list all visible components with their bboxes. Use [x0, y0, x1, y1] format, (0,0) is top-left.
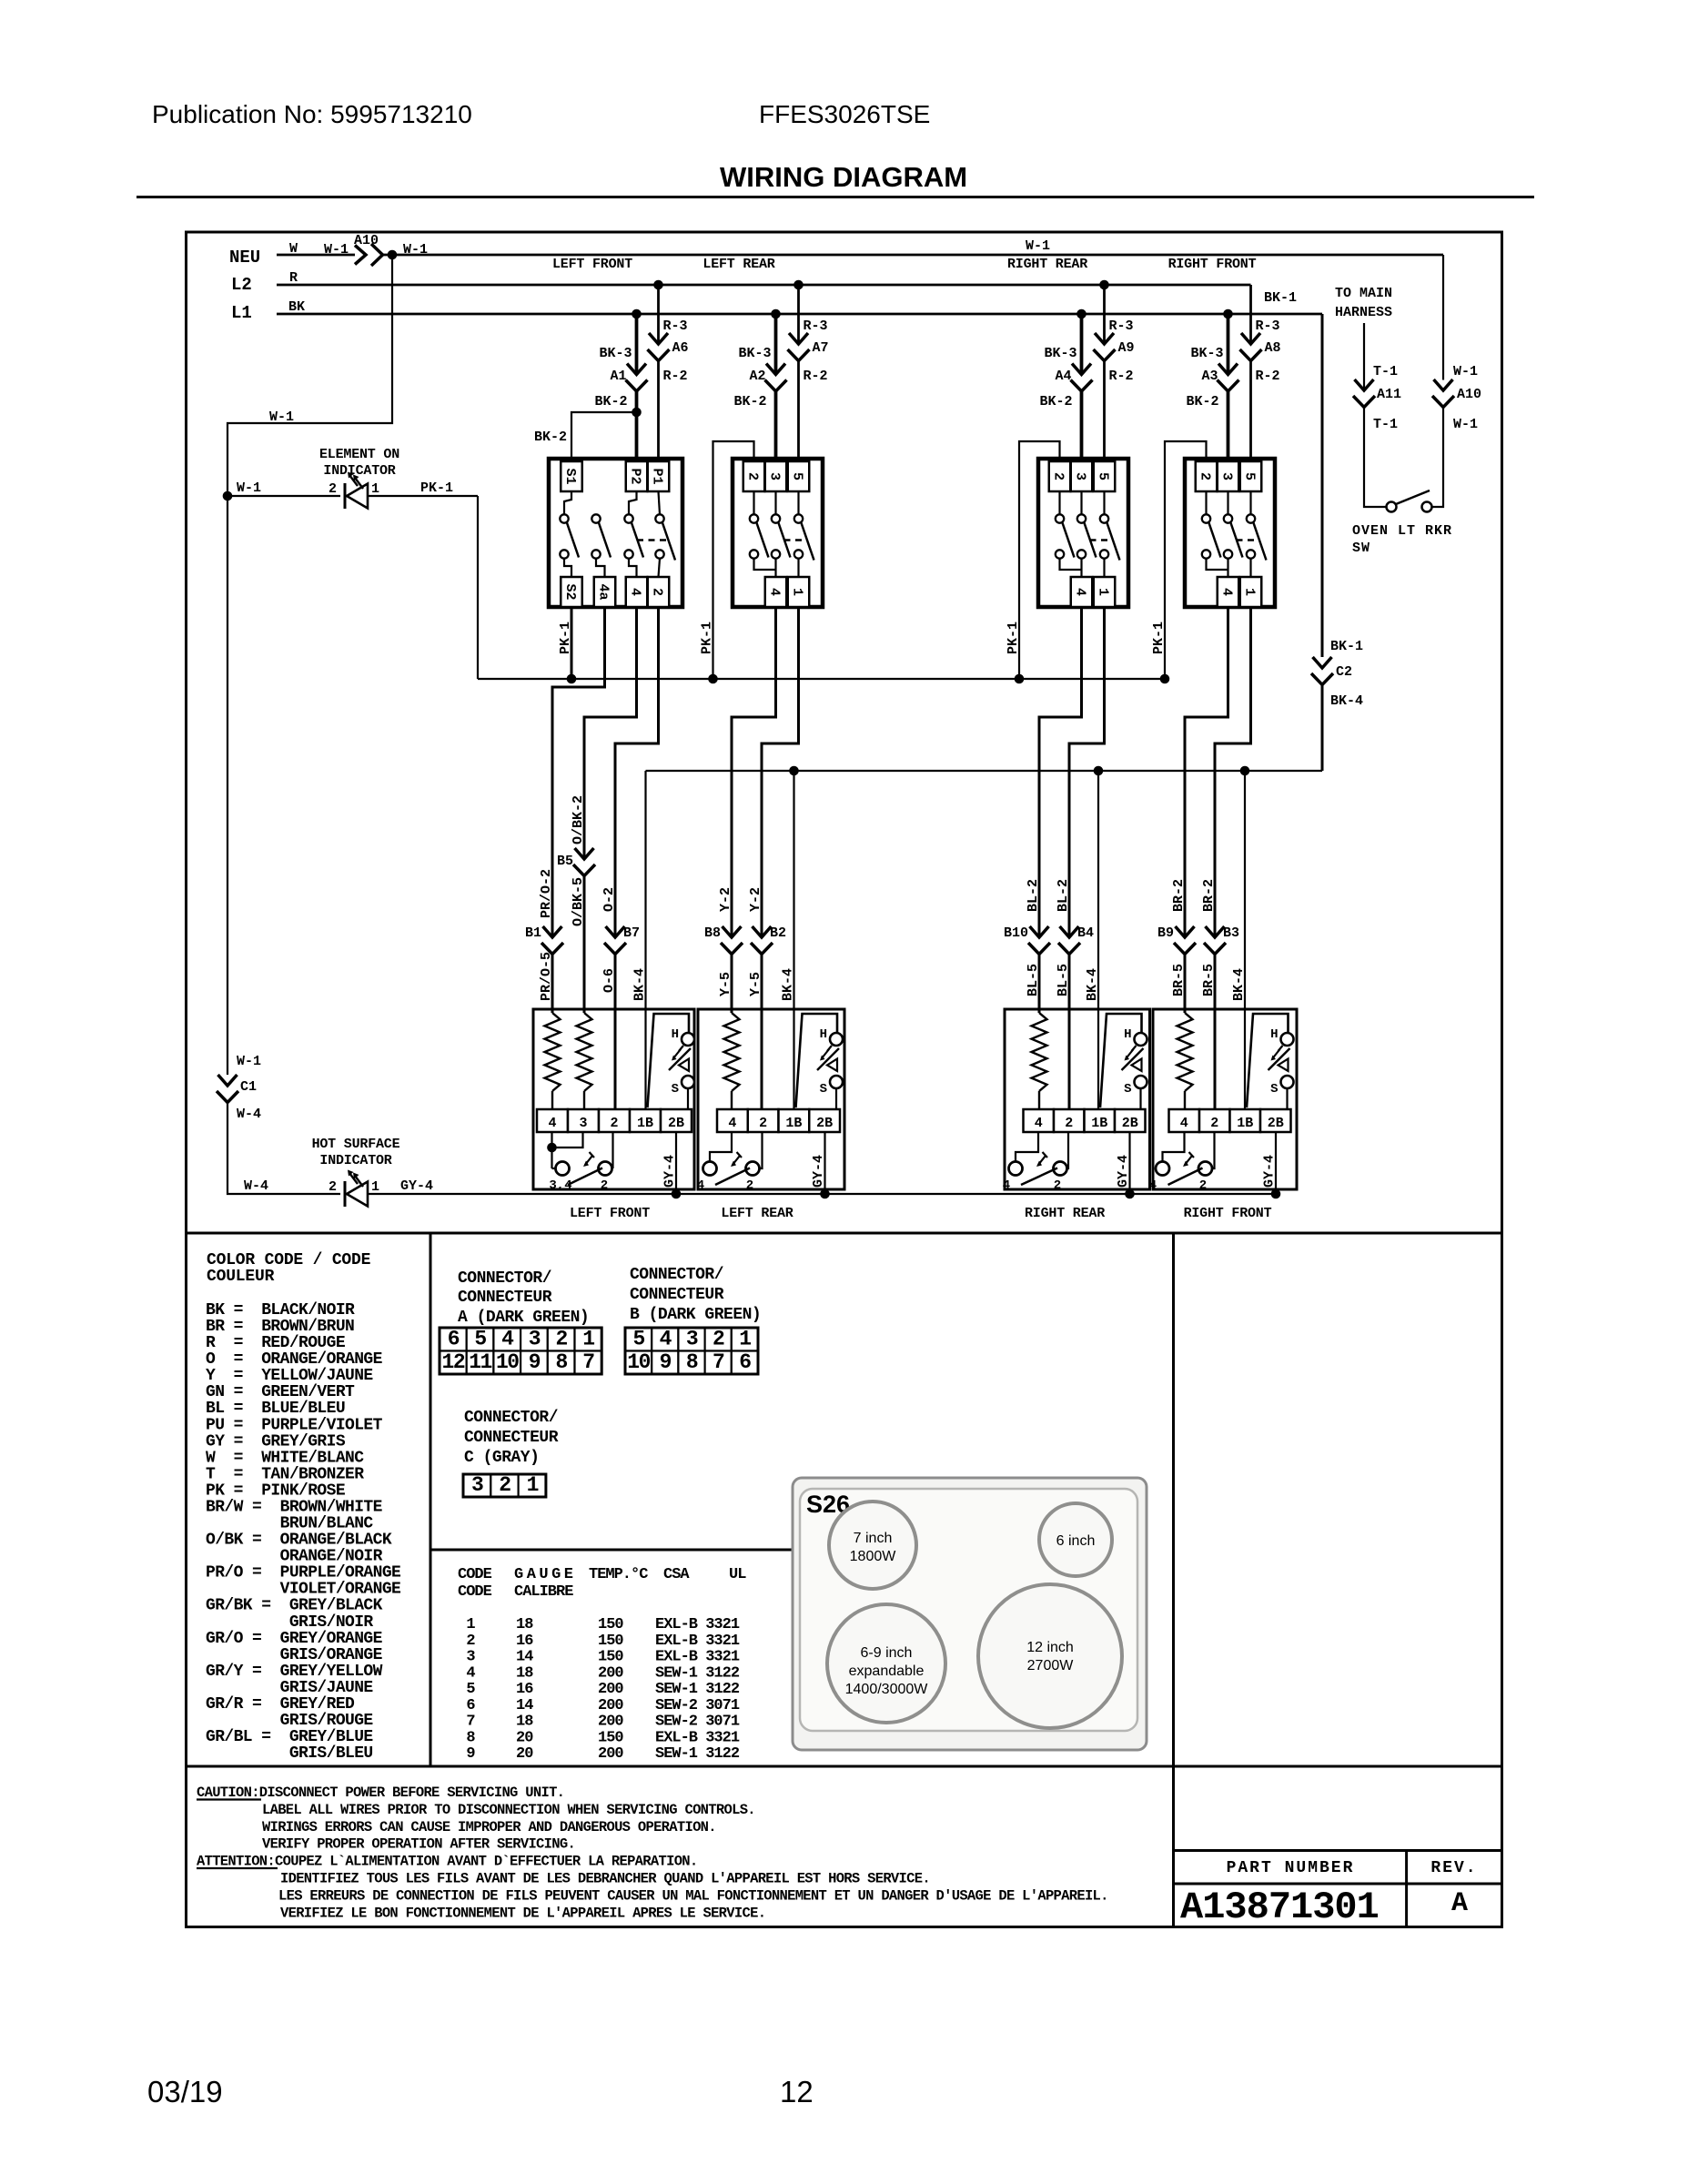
svg-text:WIRINGS ERRORS CAN CAUSE IMPRO: WIRINGS ERRORS CAN CAUSE IMPROPER AND DA… — [262, 1819, 716, 1835]
svg-text:VERIFIEZ LE BON FONCTIONNEMENT: VERIFIEZ LE BON FONCTIONNEMENT DE L'APPA… — [280, 1905, 765, 1921]
svg-text:BK-2: BK-2 — [594, 394, 627, 409]
svg-text:1: 1 — [371, 1179, 379, 1195]
svg-text:3: 3 — [471, 1473, 483, 1497]
svg-text:COULEUR: COULEUR — [207, 1268, 275, 1286]
svg-text:GRIS/JAUNE: GRIS/JAUNE — [206, 1679, 373, 1697]
svg-text:O-2: O-2 — [601, 887, 617, 912]
svg-text:BR-5: BR-5 — [1201, 964, 1217, 996]
svg-text:CONNECTEUR: CONNECTEUR — [458, 1289, 552, 1307]
svg-text:ORANGE/NOIR: ORANGE/NOIR — [206, 1548, 383, 1566]
svg-text:BL = BLUE/BLEU: BL = BLUE/BLEU — [206, 1400, 345, 1418]
svg-text:2: 2 — [650, 588, 665, 596]
svg-text:W-1: W-1 — [1026, 238, 1050, 254]
svg-text:BK = BLACK/NOIR: BK = BLACK/NOIR — [206, 1301, 355, 1319]
svg-text:8: 8 — [466, 1729, 475, 1746]
svg-text:2: 2 — [466, 1633, 475, 1650]
svg-text:INDICATOR: INDICATOR — [323, 463, 395, 479]
svg-text:B10: B10 — [1004, 925, 1028, 941]
svg-text:CODE: CODE — [458, 1583, 492, 1601]
svg-text:R = RED/ROUGE: R = RED/ROUGE — [206, 1334, 346, 1352]
svg-text:16: 16 — [516, 1681, 533, 1698]
svg-text:GRIS/ORANGE: GRIS/ORANGE — [206, 1646, 383, 1664]
svg-text:W-4: W-4 — [237, 1107, 261, 1122]
svg-text:A3: A3 — [1201, 369, 1218, 384]
svg-text:RIGHT REAR: RIGHT REAR — [1007, 257, 1087, 272]
svg-text:5: 5 — [474, 1328, 486, 1351]
svg-text:BK-3: BK-3 — [599, 346, 632, 361]
svg-text:7: 7 — [466, 1714, 475, 1731]
svg-text:HARNESS: HARNESS — [1335, 305, 1392, 320]
svg-text:GRIS/NOIR: GRIS/NOIR — [206, 1613, 373, 1632]
svg-text:BL-2: BL-2 — [1026, 879, 1041, 912]
svg-text:9: 9 — [466, 1745, 475, 1763]
svg-text:1: 1 — [582, 1328, 594, 1351]
svg-text:R-2: R-2 — [804, 369, 828, 384]
svg-text:SEW-2 3071: SEW-2 3071 — [655, 1714, 740, 1731]
svg-text:6-9 inch: 6-9 inch — [861, 1645, 913, 1661]
svg-text:5: 5 — [1096, 472, 1111, 480]
svg-text:2: 2 — [1198, 472, 1213, 480]
svg-text:1: 1 — [1096, 588, 1111, 596]
svg-text:A (DARK GREEN): A (DARK GREEN) — [458, 1309, 589, 1327]
svg-text:BK-4: BK-4 — [1231, 968, 1247, 1001]
svg-text:PR/O = PURPLE/ORANGE: PR/O = PURPLE/ORANGE — [206, 1564, 401, 1582]
svg-text:BK-4: BK-4 — [781, 968, 796, 1001]
svg-text:200: 200 — [598, 1697, 623, 1714]
svg-text:1400/3000W: 1400/3000W — [845, 1682, 929, 1697]
svg-text:5: 5 — [1242, 472, 1258, 480]
svg-text:1: 1 — [739, 1328, 751, 1351]
svg-text:R-3: R-3 — [1256, 318, 1280, 334]
svg-text:8: 8 — [686, 1350, 698, 1374]
svg-text:WIRING DIAGRAM: WIRING DIAGRAM — [720, 161, 967, 193]
svg-text:2: 2 — [745, 472, 761, 480]
svg-text:LEFT FRONT: LEFT FRONT — [570, 1206, 650, 1221]
svg-text:A8: A8 — [1265, 340, 1281, 356]
svg-text:GY-4: GY-4 — [400, 1178, 433, 1194]
svg-text:R-2: R-2 — [1256, 369, 1280, 384]
svg-text:7: 7 — [582, 1350, 594, 1374]
svg-text:CAUTION:DISCONNECT POWER BEFOR: CAUTION:DISCONNECT POWER BEFORE SERVICIN… — [197, 1785, 564, 1801]
svg-text:SEW-1 3122: SEW-1 3122 — [655, 1664, 740, 1682]
svg-text:2B: 2B — [1268, 1116, 1284, 1131]
svg-text:1B: 1B — [637, 1116, 653, 1131]
svg-text:PK-1: PK-1 — [700, 622, 715, 654]
svg-text:BR/W = BROWN/WHITE: BR/W = BROWN/WHITE — [206, 1498, 383, 1516]
svg-text:CONNECTOR/: CONNECTOR/ — [630, 1266, 723, 1284]
svg-text:GR/BL = GREY/BLUE: GR/BL = GREY/BLUE — [206, 1728, 373, 1746]
svg-text:P1: P1 — [650, 468, 665, 484]
svg-text:2: 2 — [1065, 1116, 1073, 1131]
svg-text:14: 14 — [516, 1649, 533, 1666]
svg-text:3: 3 — [466, 1649, 475, 1666]
svg-text:VIOLET/ORANGE: VIOLET/ORANGE — [206, 1581, 401, 1599]
svg-text:7 inch: 7 inch — [854, 1531, 893, 1546]
svg-text:6: 6 — [739, 1350, 751, 1374]
svg-text:11: 11 — [469, 1350, 491, 1374]
svg-text:1: 1 — [527, 1473, 539, 1497]
svg-text:GRIS/BLEU: GRIS/BLEU — [206, 1744, 373, 1763]
svg-text:L1: L1 — [231, 303, 252, 323]
svg-text:PK = PINK/ROSE: PK = PINK/ROSE — [206, 1481, 346, 1500]
svg-text:FFES3026TSE: FFES3026TSE — [759, 100, 930, 128]
svg-text:5: 5 — [466, 1681, 475, 1698]
svg-text:4: 4 — [1035, 1116, 1043, 1131]
svg-text:2: 2 — [1210, 1116, 1218, 1131]
svg-text:12: 12 — [442, 1350, 465, 1374]
svg-text:1B: 1B — [1091, 1116, 1107, 1131]
svg-text:CONNECTOR/: CONNECTOR/ — [464, 1409, 558, 1427]
svg-text:B5: B5 — [557, 854, 573, 869]
svg-text:BR-2: BR-2 — [1201, 879, 1217, 912]
svg-text:2: 2 — [1054, 1178, 1061, 1193]
svg-text:LEFT REAR: LEFT REAR — [721, 1206, 793, 1221]
svg-text:12: 12 — [780, 2075, 814, 2108]
svg-text:2700W: 2700W — [1027, 1658, 1075, 1673]
svg-text:A1: A1 — [610, 369, 626, 384]
svg-text:BK-2: BK-2 — [534, 430, 567, 445]
svg-text:A10: A10 — [354, 233, 379, 248]
svg-text:W-1: W-1 — [324, 242, 349, 258]
svg-text:R-3: R-3 — [804, 318, 828, 334]
svg-text:8: 8 — [555, 1350, 567, 1374]
svg-text:2: 2 — [610, 1116, 618, 1131]
svg-text:BL-5: BL-5 — [1056, 964, 1071, 996]
svg-text:BK-2: BK-2 — [1039, 394, 1072, 409]
svg-text:03/19: 03/19 — [147, 2075, 223, 2108]
svg-text:2: 2 — [601, 1178, 608, 1193]
svg-text:W-1: W-1 — [237, 480, 261, 496]
svg-text:Publication No: 5995713210: Publication No: 5995713210 — [152, 100, 472, 128]
svg-text:W-1: W-1 — [403, 242, 428, 258]
svg-text:200: 200 — [598, 1664, 623, 1682]
svg-text:S: S — [672, 1082, 679, 1097]
svg-text:W-4: W-4 — [244, 1178, 268, 1194]
svg-text:R-3: R-3 — [663, 318, 688, 334]
svg-text:H: H — [1270, 1027, 1278, 1042]
svg-text:CALIBRE: CALIBRE — [514, 1583, 573, 1601]
svg-text:T-1: T-1 — [1373, 417, 1398, 432]
svg-text:R-2: R-2 — [663, 369, 688, 384]
svg-text:2B: 2B — [1122, 1116, 1138, 1131]
svg-text:S: S — [1124, 1082, 1131, 1097]
svg-text:18: 18 — [516, 1616, 533, 1633]
svg-text:B8: B8 — [704, 925, 721, 941]
svg-text:T-1: T-1 — [1373, 364, 1398, 379]
svg-text:S1: S1 — [562, 468, 578, 484]
svg-text:A11: A11 — [1377, 387, 1401, 402]
svg-text:T = TAN/BRONZER: T = TAN/BRONZER — [206, 1465, 364, 1483]
svg-text:S: S — [820, 1082, 827, 1097]
svg-text:BR-5: BR-5 — [1171, 964, 1187, 996]
svg-text:7: 7 — [713, 1350, 724, 1374]
svg-text:4: 4 — [660, 1328, 672, 1351]
svg-text:BK-1: BK-1 — [1330, 639, 1363, 654]
svg-text:1: 1 — [466, 1616, 475, 1633]
svg-text:BK-4: BK-4 — [1330, 693, 1363, 709]
svg-text:PU = PURPLE/VIOLET: PU = PURPLE/VIOLET — [206, 1416, 383, 1434]
svg-text:6: 6 — [448, 1328, 460, 1351]
svg-text:C2: C2 — [1336, 664, 1352, 680]
svg-text:1: 1 — [790, 588, 805, 596]
svg-text:A2: A2 — [749, 369, 765, 384]
svg-text:A10: A10 — [1457, 387, 1481, 402]
svg-text:GY-4: GY-4 — [811, 1155, 826, 1188]
svg-text:BR = BROWN/BRUN: BR = BROWN/BRUN — [206, 1318, 354, 1336]
svg-text:BR-2: BR-2 — [1171, 879, 1187, 912]
svg-text:REV.: REV. — [1430, 1859, 1477, 1877]
svg-text:SW: SW — [1352, 541, 1370, 556]
svg-text:3: 3 — [767, 472, 783, 480]
svg-text:L2: L2 — [231, 275, 252, 295]
svg-text:TEMP.°C: TEMP.°C — [589, 1566, 648, 1583]
svg-text:2: 2 — [759, 1116, 767, 1131]
svg-text:GY-4: GY-4 — [1116, 1155, 1131, 1188]
svg-text:COLOR CODE / CODE: COLOR CODE / CODE — [207, 1251, 371, 1269]
svg-text:P2: P2 — [628, 468, 643, 484]
svg-text:5: 5 — [790, 472, 805, 480]
svg-text:O-6: O-6 — [601, 968, 617, 993]
svg-text:RIGHT REAR: RIGHT REAR — [1025, 1206, 1105, 1221]
svg-text:O = ORANGE/ORANGE: O = ORANGE/ORANGE — [206, 1350, 383, 1369]
svg-text:BRUN/BLANC: BRUN/BLANC — [206, 1515, 373, 1533]
svg-text:O/BK-2: O/BK-2 — [571, 795, 586, 844]
svg-text:CSA: CSA — [663, 1566, 690, 1583]
svg-text:ELEMENT ON: ELEMENT ON — [319, 447, 399, 462]
svg-text:PK-1: PK-1 — [1006, 622, 1021, 654]
svg-text:SEW-1 3122: SEW-1 3122 — [655, 1681, 740, 1698]
svg-text:GN = GREEN/VERT: GN = GREEN/VERT — [206, 1383, 355, 1401]
svg-text:1B: 1B — [1237, 1116, 1253, 1131]
svg-text:3: 3 — [1073, 472, 1088, 480]
svg-text:2: 2 — [329, 1179, 337, 1195]
svg-text:6: 6 — [466, 1697, 475, 1714]
svg-text:4: 4 — [1219, 588, 1235, 596]
svg-text:150: 150 — [598, 1729, 623, 1746]
svg-text:BK: BK — [288, 299, 305, 315]
svg-text:CONNECTOR/: CONNECTOR/ — [458, 1269, 551, 1288]
svg-text:PK-1: PK-1 — [1151, 622, 1167, 654]
svg-text:BK-4: BK-4 — [632, 968, 648, 1001]
svg-text:GR/Y = GREY/YELLOW: GR/Y = GREY/YELLOW — [206, 1663, 383, 1681]
svg-text:20: 20 — [516, 1745, 533, 1763]
svg-text:RIGHT FRONT: RIGHT FRONT — [1168, 257, 1257, 272]
svg-text:1: 1 — [371, 481, 379, 497]
svg-text:14: 14 — [516, 1697, 533, 1714]
svg-text:RIGHT FRONT: RIGHT FRONT — [1184, 1206, 1272, 1221]
svg-text:R-2: R-2 — [1109, 369, 1134, 384]
svg-text:BK-2: BK-2 — [1186, 394, 1218, 409]
svg-text:B7: B7 — [623, 925, 640, 941]
svg-text:3: 3 — [1219, 472, 1235, 480]
svg-text:200: 200 — [598, 1714, 623, 1731]
svg-text:4a: 4a — [596, 583, 612, 600]
svg-text:LES ERREURS DE CONNECTION DE F: LES ERREURS DE CONNECTION DE FILS PEUVEN… — [278, 1887, 1108, 1904]
svg-text:10: 10 — [627, 1350, 650, 1374]
svg-text:SEW-2 3071: SEW-2 3071 — [655, 1697, 740, 1714]
svg-text:W = WHITE/BLANC: W = WHITE/BLANC — [206, 1449, 364, 1467]
svg-text:CONNECTEUR: CONNECTEUR — [630, 1286, 724, 1304]
svg-text:PK-1: PK-1 — [558, 622, 573, 654]
svg-text:4: 4 — [1180, 1116, 1188, 1131]
svg-text:W-1: W-1 — [1453, 364, 1478, 379]
svg-text:9: 9 — [660, 1350, 672, 1374]
svg-text:B (DARK GREEN): B (DARK GREEN) — [630, 1306, 761, 1324]
svg-text:UL: UL — [729, 1566, 746, 1583]
svg-text:Y-5: Y-5 — [718, 972, 733, 996]
svg-text:200: 200 — [598, 1681, 623, 1698]
svg-text:2: 2 — [1051, 472, 1066, 480]
svg-text:CODE: CODE — [458, 1566, 492, 1583]
svg-text:4: 4 — [501, 1328, 514, 1351]
svg-text:EXL-B 3321: EXL-B 3321 — [655, 1729, 740, 1746]
svg-text:GAUGE: GAUGE — [514, 1566, 577, 1583]
svg-text:BL-2: BL-2 — [1056, 879, 1071, 912]
svg-text:3: 3 — [579, 1116, 587, 1131]
svg-text:20: 20 — [516, 1729, 533, 1746]
svg-text:6 inch: 6 inch — [1056, 1533, 1096, 1549]
svg-text:W-1: W-1 — [237, 1054, 261, 1069]
svg-text:1: 1 — [1242, 588, 1258, 596]
svg-text:3,4: 3,4 — [549, 1178, 571, 1193]
svg-text:VERIFY PROPER OPERATION AFTER: VERIFY PROPER OPERATION AFTER SERVICING. — [262, 1836, 575, 1853]
svg-text:BK-2: BK-2 — [733, 394, 766, 409]
svg-text:5: 5 — [632, 1328, 644, 1351]
svg-text:16: 16 — [516, 1633, 533, 1650]
svg-text:EXL-B 3321: EXL-B 3321 — [655, 1649, 740, 1666]
svg-text:R: R — [289, 270, 298, 286]
svg-text:S: S — [1270, 1082, 1278, 1097]
svg-text:OVEN LT RKR: OVEN LT RKR — [1352, 523, 1452, 539]
svg-text:2: 2 — [1199, 1178, 1207, 1193]
svg-text:2: 2 — [713, 1328, 724, 1351]
svg-text:B3: B3 — [1223, 925, 1239, 941]
svg-text:A13871301: A13871301 — [1180, 1886, 1379, 1929]
svg-text:PR/O-2: PR/O-2 — [539, 869, 554, 918]
svg-text:S2: S2 — [562, 583, 578, 600]
svg-text:4: 4 — [1003, 1178, 1010, 1193]
svg-text:Y-5: Y-5 — [748, 972, 763, 996]
svg-text:A4: A4 — [1055, 369, 1071, 384]
svg-text:LEFT REAR: LEFT REAR — [702, 257, 774, 272]
svg-text:B2: B2 — [770, 925, 786, 941]
svg-text:W-1: W-1 — [1453, 417, 1478, 432]
svg-text:HOT SURFACE: HOT SURFACE — [312, 1137, 400, 1152]
svg-text:PART NUMBER: PART NUMBER — [1227, 1859, 1355, 1877]
svg-text:150: 150 — [598, 1616, 623, 1633]
svg-text:GY-4: GY-4 — [1262, 1155, 1278, 1188]
svg-text:IDENTIFIEZ TOUS LES FILS AVANT: IDENTIFIEZ TOUS LES FILS AVANT DE LES DE… — [280, 1871, 930, 1887]
svg-text:EXL-B 3321: EXL-B 3321 — [655, 1633, 740, 1650]
svg-text:BK-3: BK-3 — [1190, 346, 1223, 361]
svg-text:A6: A6 — [672, 340, 689, 356]
svg-text:GY = GREY/GRIS: GY = GREY/GRIS — [206, 1432, 346, 1451]
svg-text:O/BK-5: O/BK-5 — [571, 877, 586, 926]
svg-text:LABEL ALL WIRES PRIOR TO DISCO: LABEL ALL WIRES PRIOR TO DISCONNECTION W… — [262, 1802, 755, 1818]
svg-text:12 inch: 12 inch — [1026, 1640, 1074, 1655]
svg-text:4: 4 — [466, 1664, 475, 1682]
svg-text:B9: B9 — [1157, 925, 1174, 941]
svg-text:2B: 2B — [816, 1116, 833, 1131]
svg-text:4: 4 — [628, 588, 643, 596]
svg-text:B1: B1 — [525, 925, 541, 941]
svg-text:3: 3 — [529, 1328, 541, 1351]
svg-text:NEU: NEU — [229, 248, 260, 268]
svg-text:1800W: 1800W — [850, 1549, 897, 1564]
svg-text:10: 10 — [496, 1350, 519, 1374]
svg-text:GRIS/ROUGE: GRIS/ROUGE — [206, 1712, 373, 1730]
svg-text:2: 2 — [329, 481, 337, 497]
svg-text:4: 4 — [728, 1116, 736, 1131]
svg-text:R-3: R-3 — [1109, 318, 1134, 334]
svg-text:LEFT FRONT: LEFT FRONT — [552, 257, 632, 272]
svg-text:Y = YELLOW/JAUNE: Y = YELLOW/JAUNE — [206, 1367, 373, 1385]
svg-text:GR/O = GREY/ORANGE: GR/O = GREY/ORANGE — [206, 1630, 383, 1648]
svg-text:H: H — [1124, 1027, 1131, 1042]
svg-text:GR/R = GREY/RED: GR/R = GREY/RED — [206, 1695, 355, 1714]
svg-text:PR/O-5: PR/O-5 — [539, 952, 554, 1001]
svg-text:W: W — [289, 241, 298, 257]
svg-text:9: 9 — [529, 1350, 541, 1374]
svg-text:SEW-1 3122: SEW-1 3122 — [655, 1745, 740, 1763]
svg-text:2: 2 — [746, 1178, 753, 1193]
svg-text:BK-3: BK-3 — [738, 346, 771, 361]
svg-text:B4: B4 — [1077, 925, 1094, 941]
svg-text:4: 4 — [767, 588, 783, 596]
svg-text:PK-1: PK-1 — [420, 480, 453, 496]
svg-text:BK-1: BK-1 — [1264, 290, 1297, 306]
svg-text:BL-5: BL-5 — [1026, 964, 1041, 996]
svg-text:4: 4 — [697, 1178, 704, 1193]
svg-text:2: 2 — [555, 1328, 567, 1351]
svg-text:TO MAIN: TO MAIN — [1335, 286, 1392, 301]
svg-text:CONNECTEUR: CONNECTEUR — [464, 1429, 559, 1447]
svg-text:Y-2: Y-2 — [718, 887, 733, 912]
svg-text:C1: C1 — [240, 1079, 257, 1095]
svg-text:2: 2 — [499, 1473, 510, 1497]
svg-text:2B: 2B — [668, 1116, 684, 1131]
svg-text:4: 4 — [1149, 1178, 1157, 1193]
svg-text:GR/BK = GREY/BLACK: GR/BK = GREY/BLACK — [206, 1597, 383, 1615]
svg-text:18: 18 — [516, 1714, 533, 1731]
svg-text:A: A — [1451, 1888, 1468, 1919]
svg-text:18: 18 — [516, 1664, 533, 1682]
svg-text:C (GRAY): C (GRAY) — [464, 1449, 539, 1467]
svg-text:W-1: W-1 — [269, 409, 294, 425]
svg-text:150: 150 — [598, 1649, 623, 1666]
svg-text:expandable: expandable — [849, 1663, 925, 1679]
svg-text:4: 4 — [1073, 588, 1088, 596]
svg-text:BK-3: BK-3 — [1044, 346, 1076, 361]
svg-text:A9: A9 — [1118, 340, 1135, 356]
svg-text:BK-4: BK-4 — [1085, 968, 1100, 1001]
svg-text:4: 4 — [548, 1116, 556, 1131]
svg-text:Y-2: Y-2 — [748, 887, 763, 912]
svg-text:GY-4: GY-4 — [662, 1155, 678, 1188]
svg-text:150: 150 — [598, 1633, 623, 1650]
svg-text:H: H — [672, 1027, 679, 1042]
svg-text:INDICATOR: INDICATOR — [319, 1153, 391, 1168]
svg-text:1B: 1B — [785, 1116, 802, 1131]
svg-text:200: 200 — [598, 1745, 623, 1763]
svg-text:EXL-B 3321: EXL-B 3321 — [655, 1616, 740, 1633]
svg-text:H: H — [820, 1027, 827, 1042]
svg-text:A7: A7 — [813, 340, 829, 356]
svg-text:O/BK = ORANGE/BLACK: O/BK = ORANGE/BLACK — [206, 1532, 392, 1550]
svg-text:3: 3 — [686, 1328, 698, 1351]
